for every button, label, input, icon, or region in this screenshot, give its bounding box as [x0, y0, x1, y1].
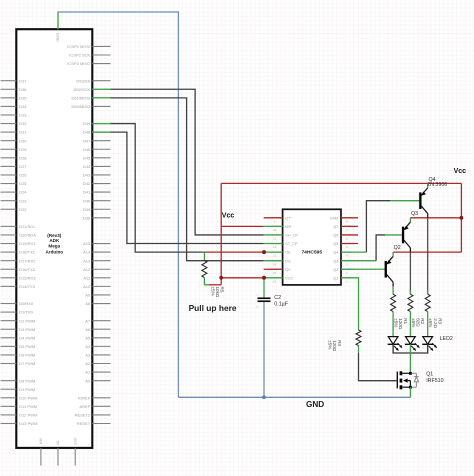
svg-text:D24: D24	[19, 190, 27, 195]
svg-text:ST_CP: ST_CP	[285, 242, 298, 246]
svg-text:DS: DS	[285, 259, 291, 263]
svg-text:D5 PWM: D5 PWM	[19, 344, 35, 349]
wire D49 green pigtail	[92, 123, 110, 125]
wire U1 Q2 to Q2 base (green)	[341, 268, 385, 270]
wire U1 Q4 pin green lead	[341, 251, 366, 253]
svg-text:D25: D25	[19, 181, 27, 186]
wire Q3 base green segment	[385, 234, 402, 236]
svg-text:SH_CP: SH_CP	[285, 234, 298, 238]
svg-text:D36: D36	[19, 87, 27, 92]
svg-text:D4 PWM: D4 PWM	[19, 335, 35, 340]
svg-text:13: 13	[273, 254, 277, 258]
wire U1 Q3 to Q3 base (black riser)	[376, 235, 385, 261]
wire green pin lead U1 VCC	[264, 277, 283, 279]
Vcc net red: left vertical	[220, 183, 222, 284]
svg-text:D16/TX2: D16/TX2	[19, 267, 36, 272]
svg-text:D53/SS: D53/SS	[76, 78, 90, 83]
svg-text:VIN: VIN	[39, 438, 44, 445]
svg-text:VCC: VCC	[285, 276, 293, 280]
resistor R1 bottom lead green to LED anode	[392, 312, 394, 337]
junction dot GND rail / C2	[262, 395, 266, 399]
svg-text:Vcc: Vcc	[222, 213, 235, 220]
svg-text:D49: D49	[83, 121, 91, 126]
svg-text:ADK: ADK	[49, 238, 60, 243]
svg-text:D6 PWM: D6 PWM	[19, 353, 35, 358]
resistor R5 value label	[210, 287, 224, 298]
svg-text:15: 15	[273, 271, 277, 275]
svg-text:±5%: ±5%	[411, 318, 416, 327]
svg-text:D42: D42	[83, 181, 91, 186]
svg-text:D41: D41	[83, 190, 91, 195]
resistor R4 value label	[328, 340, 342, 352]
svg-text:Q5: Q5	[333, 242, 338, 246]
resistor R2 bottom lead green to LED anode	[409, 312, 411, 337]
svg-text:D51/MOSI: D51/MOSI	[72, 95, 91, 100]
Vcc net red: branch to U1 VCC and C2	[221, 277, 264, 279]
wire Q1 source to GND rail (green)	[409, 387, 411, 397]
svg-text:D37: D37	[19, 78, 27, 83]
svg-text:Pull up here: Pull up here	[189, 303, 237, 313]
IC right pin numbers	[346, 219, 348, 283]
wire green pin lead U1 SH_CP	[264, 234, 283, 236]
svg-text:IRF510: IRF510	[426, 378, 443, 384]
svg-text:ICSP2 MOSI: ICSP2 MOSI	[67, 44, 90, 49]
svg-text:D40: D40	[83, 198, 91, 203]
svg-text:A10: A10	[83, 284, 91, 289]
IC U1 74HC595 body	[283, 209, 341, 285]
wire U1 Q4 to Q4 base (black riser)	[366, 201, 390, 252]
wire Q4 collector to R3	[427, 218, 429, 294]
IC left pin name labels	[285, 216, 298, 280]
resistor R3 value label	[428, 318, 442, 328]
svg-text:±5%: ±5%	[210, 287, 215, 296]
svg-text:D38: D38	[83, 215, 91, 220]
svg-text:D52/SCK: D52/SCK	[74, 87, 91, 92]
Q1 source connection	[402, 386, 410, 388]
Arduino title label (Rev3) ADK Mega Arduino	[45, 233, 63, 255]
svg-text:D44: D44	[83, 164, 91, 169]
wire U1 Q1 to R4 (green)	[341, 278, 359, 330]
svg-text:A14: A14	[83, 250, 91, 255]
Arduino bottom pin labels	[39, 438, 78, 446]
capacitor C2 plates	[258, 297, 271, 299]
transistor Q2 PNP symbol	[385, 261, 387, 278]
svg-text:D32: D32	[19, 121, 27, 126]
svg-text:0.1µF: 0.1µF	[274, 301, 288, 307]
svg-text:D13 PWM: D13 PWM	[19, 421, 37, 426]
Vcc net red: branch R5 bottom	[209, 284, 221, 286]
resistor R5 bottom lead green	[204, 278, 209, 285]
wire GND net blue: left vertical segment	[177, 11, 179, 397]
svg-text:D20/SDA: D20/SDA	[19, 233, 36, 238]
svg-text:D43: D43	[83, 173, 91, 178]
wire LED cathode bus	[393, 344, 428, 353]
wire D51/MOSI green pigtail	[92, 97, 110, 99]
wire U1 Q3 pin green lead	[341, 260, 376, 262]
svg-text:D30: D30	[19, 138, 27, 143]
svg-text:LED2: LED2	[440, 336, 453, 342]
resistor R1 value label	[394, 318, 408, 330]
wire green pin lead U1 MR	[264, 225, 283, 227]
svg-text:RESET: RESET	[77, 421, 91, 426]
resistor R3 bottom lead green to LED anode	[427, 312, 429, 337]
svg-text:D9 PWM: D9 PWM	[19, 387, 35, 392]
IC right pin stubs	[341, 218, 353, 278]
IC left pin stubs	[270, 218, 282, 278]
svg-text:Mega: Mega	[48, 244, 60, 249]
svg-text:±5%: ±5%	[394, 318, 399, 327]
wire D49 to R5/OE node (black)	[111, 124, 204, 253]
svg-text:A11: A11	[83, 275, 91, 280]
svg-text:A6: A6	[85, 327, 91, 332]
svg-text:D33: D33	[19, 113, 27, 118]
capacitor C2 bottom lead to GND (blue)	[263, 302, 265, 397]
svg-text:RESET2: RESET2	[75, 413, 91, 418]
wire red dead-end stub U1 GND	[341, 217, 358, 219]
svg-text:D22: D22	[19, 207, 27, 212]
svg-text:14: 14	[273, 262, 277, 266]
svg-text:D12 PWM: D12 PWM	[19, 413, 37, 418]
svg-text:D21/SCL: D21/SCL	[19, 224, 36, 229]
wire R4 bottom green lead	[358, 346, 360, 354]
Q1 drain connection	[402, 372, 410, 374]
svg-text:A0: A0	[85, 378, 91, 383]
Vcc net red: rail to Q2 emitter	[393, 251, 461, 253]
svg-text:Q7″: Q7″	[285, 216, 292, 220]
svg-text:A8: A8	[85, 301, 91, 306]
svg-text:A7: A7	[85, 318, 91, 323]
svg-text:Q3: Q3	[411, 211, 418, 217]
wire R4 to Q1 gate (black)	[359, 353, 397, 381]
IC left pin numbers	[273, 219, 277, 283]
resistor R2 value label	[411, 318, 425, 327]
svg-text:Q2: Q2	[333, 268, 338, 272]
svg-text:D35: D35	[19, 95, 27, 100]
wire D52/SCK green pigtail	[92, 88, 110, 90]
svg-text:A3: A3	[85, 353, 91, 358]
wire D48 to U1 ST_CP (black)	[111, 132, 264, 243]
svg-text:10: 10	[273, 228, 277, 232]
svg-text:D18/TX1: D18/TX1	[19, 250, 36, 255]
svg-text:3V3: 3V3	[73, 438, 78, 446]
Vcc net red: right vertical	[460, 183, 462, 252]
resistor R4 body	[356, 330, 361, 346]
svg-text:A4: A4	[85, 344, 91, 349]
svg-text:D11 PWM: D11 PWM	[19, 404, 37, 409]
transistor Q3 PNP symbol	[402, 227, 404, 244]
wire red dead-end stub U1 Q7"	[264, 217, 283, 219]
svg-text:D48: D48	[83, 130, 91, 135]
junction dot Vcc vertical at VCC row	[219, 276, 223, 280]
Arduino bottom power pin stubs VIN 5V 3V3	[41, 448, 75, 466]
wire Q3 collector to R2	[409, 252, 411, 294]
resistor R2 body	[408, 294, 413, 311]
wire Q4 base green segment	[390, 200, 419, 202]
wire LED bus to Q1 drain (green)	[409, 353, 411, 373]
wire Q2 collector to R1	[392, 286, 394, 294]
svg-text:D15/RX3: D15/RX3	[19, 275, 36, 280]
svg-text:ICSP2 MISO: ICSP2 MISO	[67, 61, 90, 66]
svg-text:A13: A13	[83, 258, 91, 263]
svg-text:Q2: Q2	[394, 245, 401, 251]
Vcc net red: top rail	[221, 182, 461, 184]
Q1 body arrow pointing into channel	[403, 378, 407, 382]
svg-text:12: 12	[273, 245, 277, 249]
svg-text:Q1: Q1	[333, 276, 338, 280]
svg-text:Arduino: Arduino	[45, 250, 63, 255]
svg-text:D29: D29	[19, 147, 27, 152]
svg-text:D0/RX0: D0/RX0	[19, 301, 34, 306]
wire green pin lead U1 DS	[264, 260, 283, 262]
transistor Q1 IRF510 N-MOSFET symbol: gate bar	[396, 372, 398, 389]
wire GND net blue: bottom horizontal rail	[178, 396, 410, 398]
Arduino top GND pin stub	[57, 21, 59, 30]
svg-text:Vcc: Vcc	[454, 168, 467, 175]
wire red dead-end stub U1 Q5	[341, 243, 358, 245]
resistor R1 body	[391, 294, 396, 311]
svg-text:D28: D28	[19, 155, 27, 160]
svg-text:16: 16	[273, 279, 277, 283]
svg-text:D7 PWM: D7 PWM	[19, 361, 35, 366]
svg-text:D3 PWM: D3 PWM	[19, 327, 35, 332]
svg-text:5V: 5V	[56, 441, 61, 446]
svg-text:A1: A1	[85, 370, 91, 375]
wire red dead-end stub U1 Q7	[341, 225, 358, 227]
svg-text:D27: D27	[19, 164, 27, 169]
svg-text:A12: A12	[83, 267, 91, 272]
wire D52/SCK to U1 SH_CP (black)	[111, 89, 264, 235]
wire red dead-end stub U1 Q6	[341, 234, 358, 236]
IC right pin name labels	[330, 216, 339, 280]
junction dot Vcc right vertical / Q3 rail	[460, 216, 464, 220]
wire green pin lead U1 ST_CP	[264, 243, 283, 245]
svg-text:A15: A15	[83, 241, 91, 246]
Vcc net red: branch to U1 MR	[221, 225, 264, 227]
Vcc net red: rail to Q3 emitter	[410, 217, 461, 219]
Q1 channel segments	[400, 371, 403, 375]
Arduino right pin labels	[67, 44, 91, 426]
svg-text:D47: D47	[83, 138, 91, 143]
wire LED2 middle cathode / drain drop (green)	[409, 344, 411, 353]
svg-text:D8 PWM: D8 PWM	[19, 378, 35, 383]
wire GND net blue: top horizontal segment	[58, 11, 178, 13]
transistor Q4 PNP symbol	[419, 192, 421, 209]
svg-text:A9: A9	[85, 293, 91, 298]
svg-text:74HC595: 74HC595	[301, 249, 322, 255]
svg-text:Q4: Q4	[333, 251, 338, 255]
junction dot OE / pull-up node at U1 OE	[262, 250, 266, 254]
svg-text:A5: A5	[85, 335, 91, 340]
Vcc net red: pull-up branch to OE node	[204, 251, 264, 253]
svg-text:ICSP2 SCK: ICSP2 SCK	[69, 53, 90, 58]
resistor R5 body	[202, 261, 207, 278]
Arduino left pin stubs	[1, 81, 17, 424]
svg-text:D31: D31	[19, 130, 27, 135]
svg-text:D2 PWM: D2 PWM	[19, 318, 35, 323]
Q1 body diode	[412, 373, 419, 387]
Arduino Mega ADK module body	[16, 29, 92, 448]
svg-text:±5%: ±5%	[328, 340, 333, 349]
junction dot Vcc at U1 VCC / C2	[262, 276, 266, 280]
capacitor C2: top lead green	[263, 278, 265, 298]
LED D1 of LED2 triple	[388, 337, 398, 345]
svg-text:C2: C2	[274, 295, 281, 301]
svg-text:Q1: Q1	[426, 371, 433, 377]
svg-text:11: 11	[273, 237, 276, 241]
svg-text:AREF: AREF	[80, 404, 91, 409]
svg-text:2N 3906: 2N 3906	[427, 182, 447, 188]
svg-text:MR: MR	[285, 225, 291, 229]
wire red dead-end stub U1 Q0	[264, 268, 283, 270]
wire D48 green pigtail	[92, 131, 110, 133]
LED D2 of LED2 triple	[406, 337, 416, 345]
svg-text:D46: D46	[83, 147, 91, 152]
svg-text:OE: OE	[285, 251, 291, 255]
svg-text:D17/RX2: D17/RX2	[19, 258, 36, 263]
wire GND green pigtail at Arduino GND pin	[57, 11, 59, 29]
svg-text:D19/RX1: D19/RX1	[19, 241, 36, 246]
resistor R3 body	[425, 294, 430, 311]
svg-text:Q3: Q3	[333, 259, 338, 263]
svg-text:D34: D34	[19, 104, 27, 109]
svg-text:D50/MISO: D50/MISO	[72, 104, 91, 109]
svg-text:D23: D23	[19, 198, 27, 203]
svg-text:GND: GND	[330, 216, 339, 220]
svg-text:Q6: Q6	[333, 234, 338, 238]
wire D51/MOSI to U1 DS (black)	[111, 98, 264, 261]
Arduino right pin stubs	[92, 46, 110, 423]
svg-text:D1/TX0: D1/TX0	[19, 310, 33, 315]
LED D3 of LED2 triple	[423, 337, 433, 345]
svg-text:Q0: Q0	[285, 268, 290, 272]
svg-text:Q7: Q7	[333, 225, 338, 229]
wire green pin lead U1 OE	[264, 251, 283, 253]
svg-text:D26: D26	[19, 173, 27, 178]
svg-text:GND: GND	[56, 33, 61, 42]
svg-text:IOREF: IOREF	[78, 395, 91, 400]
svg-text:GND: GND	[306, 400, 324, 409]
Arduino left pin labels	[19, 78, 37, 426]
svg-text:D39: D39	[83, 207, 91, 212]
svg-text:D10 PWM: D10 PWM	[19, 395, 37, 400]
svg-text:D14/TX3: D14/TX3	[19, 284, 36, 289]
svg-text:A2: A2	[85, 361, 91, 366]
svg-text:±5%: ±5%	[428, 318, 433, 327]
resistor R5 10k pull-up: top lead green	[203, 252, 205, 260]
svg-text:D45: D45	[83, 155, 91, 160]
